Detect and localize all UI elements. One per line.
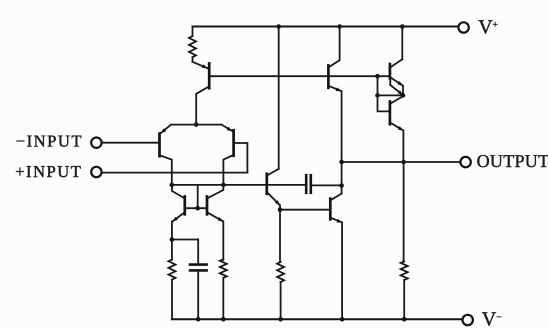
transistor Q8 (upper middle NPN) <box>328 27 341 92</box>
wire mirror collector rail / cap left lead <box>172 184 306 186</box>
transistor Q4 (left current-mirror NPN) <box>172 185 185 240</box>
wire mirror base tie <box>185 185 207 208</box>
terminal +INPUT <box>15 162 101 181</box>
terminal OUTPUT <box>460 151 548 171</box>
svg-text:−INPUT: −INPUT <box>16 132 83 151</box>
resistor R4 <box>277 262 284 319</box>
capacitor C2 (compensation) <box>306 175 341 193</box>
wire input-pair emitter rail <box>171 124 222 126</box>
diode D1 (bias, diode-connected) <box>390 78 403 103</box>
transistor Q7 (second stage output NPN) <box>330 194 342 320</box>
wire top V+ rail <box>193 26 458 28</box>
transistor Q9 (output top NPN) <box>390 27 403 96</box>
transistor Q2 (inverting input PNP) <box>160 125 172 185</box>
wire bias line (Q1 base to output stage) <box>209 75 390 77</box>
node top rail / second stage <box>276 24 281 29</box>
node output line / emitter follower junction <box>401 160 406 165</box>
node C2 right junction <box>339 183 344 188</box>
node top rail / output stage <box>400 24 405 29</box>
wire second-stage collector drop <box>278 27 280 169</box>
node R5 bottom junction <box>402 317 407 322</box>
node mirror base junction <box>195 206 200 211</box>
node bias/output-stage base junction <box>375 74 380 79</box>
node Q6 emitter junction <box>278 207 283 212</box>
wire Q8 emitter drop <box>341 91 343 193</box>
node output line left junction <box>339 160 344 165</box>
wire Q6 emitter to Q7 base <box>280 209 330 211</box>
node Q7 emitter bottom junction <box>340 317 345 322</box>
node Q3 collector junction <box>221 183 226 188</box>
node R2/C1 top junction <box>170 237 175 242</box>
node top rail / Q8 collector <box>337 24 342 29</box>
svg-text:OUTPUT: OUTPUT <box>477 151 548 171</box>
node input-pair tail junction <box>194 122 199 127</box>
transistor Q10 (output bottom NPN) <box>390 102 404 262</box>
transistor Q1 (PNP current source) <box>193 62 210 124</box>
node C1 bottom junction <box>196 317 201 322</box>
wire base node to D1 <box>378 94 404 96</box>
terminal V- <box>463 308 502 329</box>
wire bottom V- rail <box>172 318 462 320</box>
resistor R5 <box>401 261 408 319</box>
node R3 bottom junction <box>221 317 226 322</box>
resistor R3 <box>220 259 227 319</box>
svg-text:V+: V+ <box>478 16 498 38</box>
terminal V+ <box>458 16 497 38</box>
capacitor C1 <box>172 239 207 319</box>
resistor R1 <box>189 27 196 62</box>
wire +input lead <box>102 172 248 174</box>
transistor Q6 (second stage driver NPN) <box>267 169 280 262</box>
wire output line <box>342 161 460 163</box>
node Q2 collector junction <box>170 183 175 188</box>
wire -input lead <box>102 142 158 144</box>
node R4 bottom junction <box>278 317 283 322</box>
transistor Q5 (right current-mirror NPN) <box>207 185 223 260</box>
transistor Q3 (non-inverting input PNP) <box>222 125 248 185</box>
terminal -INPUT <box>16 132 102 151</box>
node base feed junction <box>375 93 380 98</box>
svg-text:V−: V− <box>482 308 502 329</box>
svg-text:+INPUT: +INPUT <box>15 162 82 181</box>
wire Q9 base to D1/Q10 base <box>377 76 379 95</box>
node D1 junction <box>401 93 406 98</box>
resistor R2 <box>169 240 176 320</box>
wire Q10 base L <box>378 95 390 111</box>
